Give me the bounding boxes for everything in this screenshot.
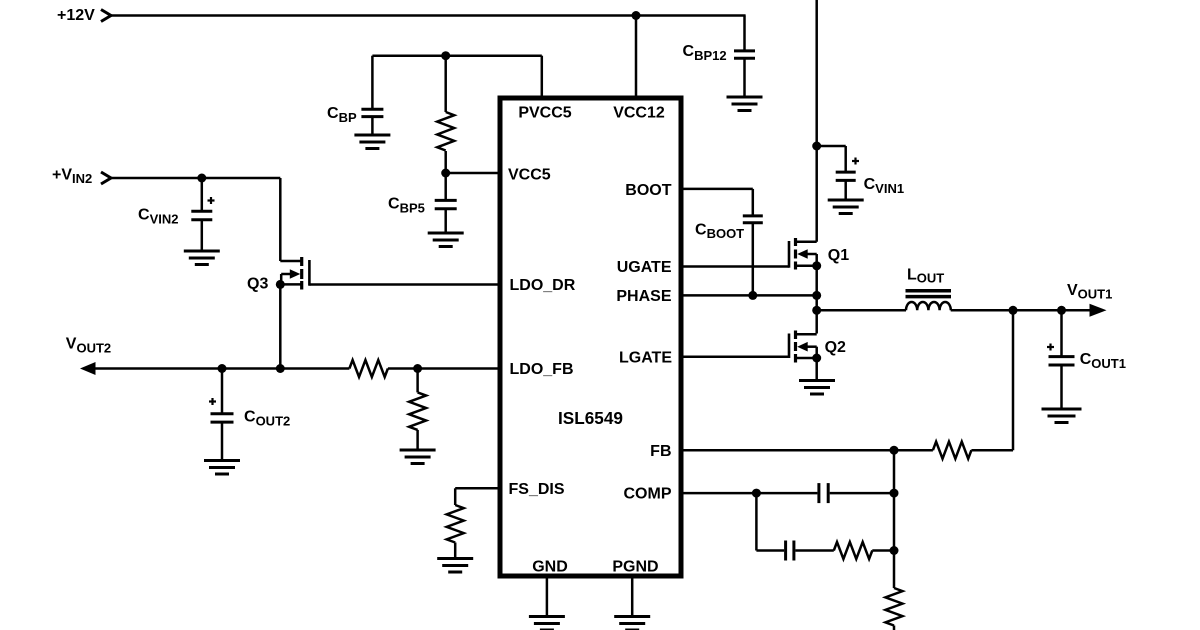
resistor COMP lower [834,542,873,559]
junction +VIN2 / CVIN2 [197,174,206,183]
wire VOUT2 rail [94,367,349,370]
junction PHASE / switch node [812,291,821,300]
wire UGATE pin [681,265,789,268]
wire CBP12 top lead [743,16,746,51]
capacitor CVIN1 [836,158,859,181]
transistor Q2 [789,331,817,363]
wire COUT1 bottom lead [1060,365,1063,409]
wire FB sense to VOUT1 [971,310,1013,450]
wire PVCC5 pin drop [541,56,544,99]
wire FS_DIS resistor bottom lead [454,543,457,559]
input port chevron +12V [101,10,111,22]
svg-text:PHASE: PHASE [616,288,671,305]
svg-text:LGATE: LGATE [619,349,672,366]
wire CBP bottom lead [371,117,374,135]
capacitor CVIN2 [191,197,214,220]
capacitor CBP5 [435,200,457,208]
wire +VIN2 rail [111,177,280,180]
svg-text:+12V: +12V [57,7,95,24]
junction +12V / VCC12 [632,11,641,20]
wire dropper resistor bottom lead [444,151,447,173]
wire dropper resistor top lead [444,56,447,112]
svg-text:GND: GND [532,559,568,576]
svg-text:BOOT: BOOT [625,182,671,199]
wire FB pin [681,449,933,452]
ground GND pin [529,617,565,630]
resistor FB divider lower [886,588,903,626]
wire lower cap to resistor [795,549,833,552]
wire lower branch lead [756,549,784,552]
wire FB vertical [893,450,896,588]
wire Q2 source to ground [815,358,818,381]
capacitor CBOOT [743,216,763,223]
resistor LDO feedback series [349,360,388,377]
wire Q3 source to VOUT2 [279,284,282,368]
capacitor COMP lower [786,541,794,561]
wire COUT1 top lead [1060,310,1063,356]
wire LDO_FB pin [388,367,500,370]
wire FB divider tail [893,626,896,630]
resistor FB sense [933,442,972,459]
wire lower resistor to FB vertical [872,549,894,552]
output arrow VOUT1 [1090,304,1107,317]
ground CVIN2 [184,251,220,265]
junction VCC5 node [441,169,450,178]
junction COMP node [752,489,761,498]
wire COMP upper cap to FB node [830,492,894,495]
wire divider resistor bottom lead [416,430,419,450]
junction Q1 source [812,261,821,270]
wire COMP vertical [755,493,758,550]
capacitor COUT2 [209,398,234,422]
wire CBOOT bottom lead [752,223,755,296]
wire CVIN1 bottom lead [844,180,847,200]
resistor LDO feedback divider [409,392,426,430]
svg-text:PGND: PGND [612,559,658,576]
capacitor COUT1 [1047,344,1075,366]
junction Q3 source [276,280,285,289]
wire PHASE pin [681,294,817,297]
svg-text:FS_DIS: FS_DIS [509,481,565,498]
wire PGND pin [631,576,634,617]
resistor FS_DIS [447,505,464,543]
svg-text:VCC5: VCC5 [508,166,551,183]
svg-text:FB: FB [650,443,671,460]
wire COMP pin [681,492,817,495]
svg-text:Q3: Q3 [247,276,268,293]
capacitor CBP12 [734,51,755,58]
wire VCC5 pin [446,172,500,175]
wire CBP5 top lead [444,173,447,200]
wire divider resistor top lead [416,369,419,393]
wire Q1 drain rail [815,0,818,242]
svg-text:UGATE: UGATE [617,259,672,276]
svg-text:Q1: Q1 [828,247,849,264]
ground PGND pin [614,617,650,630]
junction CVIN1 tap [812,142,821,151]
transistor Q1 [789,238,817,270]
ground LDO divider [400,450,436,464]
junction PVCC5 rail [441,51,450,60]
wire LOUT left lead [817,309,906,312]
inductor LOUT [906,291,952,311]
wire PVCC5 rail [372,54,541,57]
wire VCC12 pin drop [635,16,638,100]
wire CBP12 bottom lead [743,58,746,97]
wire CBOOT top lead [752,189,755,216]
junction VOUT1 / FB sense [1009,306,1018,315]
wire switch node vertical [815,266,818,334]
output arrow VOUT2 [80,362,96,375]
wire COUT2 top lead [221,369,224,414]
wire CVIN2 top lead [201,178,204,211]
junction VOUT1 / COUT1 [1057,306,1066,315]
junction lower branch / FB vertical [890,546,899,555]
ground Q2 source [799,381,835,395]
wire LDO_DR pin [309,283,500,286]
ground CBP [354,135,390,149]
capacitor COMP upper [819,483,828,503]
ground CVIN1 [828,200,864,214]
wire LGATE pin [681,356,789,359]
wire COUT2 bottom lead [221,422,224,460]
junction LDO_FB divider [413,364,422,373]
junction Q2 source [812,354,821,363]
svg-text:ISL6549: ISL6549 [558,408,623,428]
capacitor CBP [361,109,383,116]
wire GND pin [546,576,549,617]
ground FS_DIS [437,559,473,573]
wire CVIN2 bottom lead [201,220,204,251]
wire BOOT pin [681,188,753,191]
junction FB / compensation [890,446,899,455]
wire CBP top lead [371,56,374,110]
IC U1 ISL6549 PWM controller [500,98,681,576]
wire VOUT1 rail [951,309,1090,312]
resistor VCC5 dropper [437,112,454,151]
input port chevron +VIN2 [101,172,111,184]
wire Q3 drain lead [280,178,301,261]
junction CBOOT / PHASE [748,291,757,300]
wire +12V rail [111,14,746,17]
ground CBP5 [428,233,464,247]
svg-text:Q2: Q2 [825,339,846,356]
transistor Q3 [280,257,309,290]
junction VOUT2 / Q3 source [276,364,285,373]
junction switch node / LOUT [812,306,821,315]
svg-text:COMP: COMP [624,486,672,503]
svg-text:LDO_FB: LDO_FB [510,361,574,378]
svg-text:VCC12: VCC12 [613,105,665,122]
ground CBP12 [727,97,763,111]
junction VOUT2 / COUT2 [218,364,227,373]
ground COUT2 [204,461,240,475]
wire CVIN1 branch [817,146,846,172]
svg-text:PVCC5: PVCC5 [518,105,571,122]
ground COUT1 [1042,409,1082,423]
junction upper cap / FB vertical [890,489,899,498]
svg-text:LDO_DR: LDO_DR [510,277,576,294]
wire FS_DIS pin [455,488,500,505]
wire CBP5 bottom lead [444,209,447,233]
